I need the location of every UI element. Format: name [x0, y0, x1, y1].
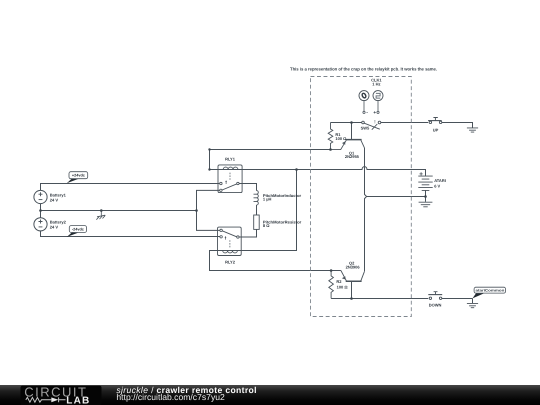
transistor Q2 base bar — [346, 280, 362, 282]
relay RLY1 switch blade — [222, 184, 237, 190]
svg-text:atariCommon: atariCommon — [476, 289, 505, 293]
svg-text:http://circuitlab.com/c7s7yu2: http://circuitlab.com/c7s7yu2 — [116, 392, 225, 402]
relay RLY2 box — [218, 227, 242, 255]
ground earth symbol under ATARI — [419, 202, 433, 207]
svg-text:24 V: 24 V — [50, 198, 59, 203]
battery ATARI bottom stub to junction — [425, 190, 427, 196]
svg-text:24 V: 24 V — [50, 225, 59, 230]
glyph 0 inside CLK1 left circle — [361, 93, 366, 99]
node flag +24vdc — [67, 179, 78, 183]
transistor Q1 collector lead — [361, 140, 365, 148]
relay RLY1 actuator arrow — [225, 182, 227, 184]
transistor Q2 collector lead — [361, 271, 365, 280]
battery Battery1 24V — [34, 190, 47, 203]
relay RLY1 box — [218, 165, 242, 193]
svg-text:2N3906: 2N3906 — [346, 264, 361, 269]
switch SW5 blade and actuator — [364, 123, 380, 129]
wire R2 bottom along y=298.4 to DOWN button — [331, 298, 428, 300]
wire 0V riser x=196 to RLY1 lower-left and RLY2 upper-left contacts — [197, 190, 221, 230]
pushbutton DOWN contacts — [429, 297, 431, 299]
wire SW5 right contact to UP button — [381, 122, 428, 124]
ground earth symbol right of UP — [467, 128, 478, 132]
annotation dashed box — [311, 77, 412, 317]
wire ATARI- junction to ground — [425, 197, 427, 202]
junction R2 top / Q2 emitter — [330, 269, 333, 272]
wire RLY1 coil left loop up and over to R1 bottom node — [210, 150, 331, 170]
wire resistor bottom to RLY2 right contact — [239, 229, 256, 237]
svg-text:100 Ω: 100 Ω — [337, 285, 349, 290]
svg-text:SW5: SW5 — [361, 126, 370, 131]
junction RLY1 coil-left corner top — [208, 148, 210, 150]
svg-text:LAB: LAB — [66, 396, 90, 405]
svg-text:RLY2: RLY2 — [225, 260, 236, 265]
transistor Q2 emitter with arrow — [341, 271, 346, 281]
wire RLY2 coil left loop down to Q2 emitter wire — [210, 251, 341, 271]
wire battery2 bottom to -24vdc net — [41, 231, 221, 237]
junction Q1 base tap — [350, 121, 353, 124]
wire +24vdc net: battery1 top to RLY1 upper-left contact — [41, 184, 220, 191]
node flag -24vdc — [67, 233, 78, 237]
wire DOWN right contact to atariCommon node — [442, 298, 473, 300]
wire battery1 bottom to mid junction to battery2 top — [40, 204, 42, 218]
svg-text:UP: UP — [433, 127, 439, 132]
wire RLY1 coil right to ATARI battery + (hop over collector line at x=364.3) — [242, 167, 425, 176]
relay RLY2 dashed actuator link — [229, 240, 231, 248]
relay RLY1 coil — [218, 169, 242, 171]
logo resistor squiggle — [26, 397, 52, 402]
pushbutton UP contacts — [429, 121, 431, 123]
junction chassis ground tap — [100, 209, 103, 212]
junction 0V riser — [195, 209, 198, 212]
wire 0V net horizontal to vertical riser — [41, 210, 197, 212]
transistor Q1 emitter with arrow — [331, 140, 347, 149]
svg-text:6 V: 6 V — [434, 183, 440, 188]
footer logo block — [21, 386, 102, 405]
junction Q2 base tap — [350, 297, 353, 300]
clock source CLK1 right circle with waveform — [373, 91, 383, 101]
svg-text:ATARI: ATARI — [434, 178, 446, 183]
junction RLY2-coil-right riser top — [295, 168, 298, 171]
transistor Q2 2N3906 base lead — [351, 282, 353, 299]
transistor Q1 base bar — [346, 139, 362, 141]
wire R1 top corner to SW5 left contact — [331, 122, 362, 124]
switch SW5 contacts — [362, 121, 365, 124]
svg-text:RLY1: RLY1 — [225, 157, 236, 162]
svg-text:R2: R2 — [336, 279, 342, 284]
clock CLK1 terminal stubs — [364, 101, 378, 112]
relay RLY2 actuator arrow — [225, 237, 227, 239]
wire inductor bottom to resistor top — [256, 205, 258, 215]
junction ATARI- ground tap — [424, 195, 427, 198]
relay RLY1 contacts — [220, 182, 222, 184]
ground earth symbol at atariCommon — [467, 303, 478, 307]
wire collector vertical Q1 to Q2 with kink at ATARI- tap — [365, 148, 367, 271]
ground chassis symbol on 0V net — [96, 211, 105, 220]
logo diode symbol — [51, 397, 58, 402]
svg-text:2N2955: 2N2955 — [345, 154, 360, 159]
wire atariCommon node to ground — [472, 299, 474, 304]
junction battery mid node — [39, 209, 42, 212]
wire RLY1 right contact to inductor top — [239, 184, 256, 191]
svg-text:-24vdc: -24vdc — [72, 228, 84, 232]
svg-text:100 Ω: 100 Ω — [335, 136, 347, 141]
relay RLY2 coil — [218, 250, 242, 252]
svg-text:DOWN: DOWN — [429, 302, 442, 307]
svg-text:8 Ω: 8 Ω — [263, 223, 270, 228]
clock CLK1 polarity marks - and + — [366, 111, 368, 113]
resistor PitchMotorResistor 8ohm (box style) — [254, 215, 260, 229]
relay RLY2 contacts — [220, 229, 222, 231]
resistor R1 100ohm — [328, 123, 333, 150]
resistor R2 100ohm — [329, 271, 334, 299]
clock source CLK1 1Hz left circle with 0 — [359, 91, 369, 101]
node flag atariCommon — [473, 293, 485, 299]
transistor Q1 2N2955 base lead — [351, 123, 353, 140]
glyph waveform inside CLK1 right circle — [376, 93, 380, 98]
inductor PitchMotorInductor 1uH — [257, 191, 259, 205]
svg-text:1 Hz: 1 Hz — [372, 81, 380, 86]
wire node to RLY2 coil right via vertical x=296.5 — [241, 170, 296, 251]
relay RLY1 dashed actuator link — [229, 173, 231, 181]
junction RLY1 coil-left corner bottom — [208, 168, 210, 170]
battery ATARI 6V plates — [418, 176, 432, 190]
junction R1 bottom / Q1 emitter — [329, 148, 332, 151]
battery ATARI + mark — [420, 172, 423, 175]
wire UP right contact to ground — [442, 123, 473, 128]
wire ATARI- from kink to battery bottom — [367, 196, 426, 198]
pushbutton DOWN plunger — [428, 294, 442, 296]
svg-text:1 µH: 1 µH — [263, 197, 272, 202]
clock CLK1 terminal pins — [363, 111, 365, 113]
battery Battery2 24V — [34, 218, 47, 231]
svg-text:This is a representation of th: This is a representation of the crap on … — [290, 66, 437, 71]
relay RLY2 switch blade — [222, 231, 237, 237]
svg-text:+24vdc: +24vdc — [72, 174, 85, 178]
pushbutton UP plunger — [428, 120, 442, 122]
